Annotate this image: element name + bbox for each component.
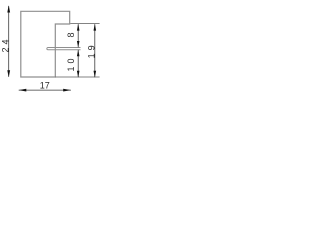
dimension 24 arrow up	[7, 5, 10, 12]
dimension 24 arrow down	[7, 70, 10, 77]
pin (lead) capsule	[47, 48, 81, 50]
svg-text:24: 24	[1, 36, 11, 52]
svg-text:17: 17	[40, 81, 50, 91]
dimension 10 arrow up	[77, 50, 80, 56]
dimension 19 arrow up	[94, 24, 97, 31]
dimension 17 line (bottom)	[19, 89, 71, 91]
extension line bottom (continuation of bottom edge)	[55, 76, 99, 78]
dimension 10 line (right chain lower)	[77, 50, 79, 77]
svg-text:8: 8	[66, 29, 76, 37]
svg-text:10: 10	[66, 55, 76, 71]
dimension 8 line (right chain upper)	[77, 24, 79, 47]
dimension 19 line (far right)	[94, 24, 96, 77]
svg-text:19: 19	[87, 42, 97, 58]
dimension 19 arrow down	[94, 71, 97, 78]
dimension 8 arrow down	[77, 41, 80, 47]
dimension 17 arrow right	[63, 89, 71, 92]
extension line top-right (from step corner)	[70, 22, 99, 24]
part outline: stepped body	[21, 11, 70, 77]
dimension 10 arrow down	[77, 71, 80, 78]
dimension 17 arrow left	[19, 89, 27, 92]
dimension 8 arrow up	[77, 24, 80, 31]
dimension 24 line (left)	[8, 6, 10, 77]
